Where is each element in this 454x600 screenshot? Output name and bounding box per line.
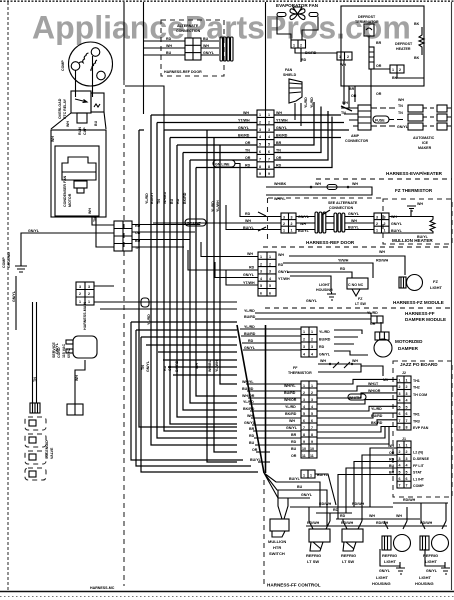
svg-text:7: 7 xyxy=(303,426,305,430)
svg-text:2: 2 xyxy=(79,292,81,296)
svg-text:CONNECTOR: CONNECTOR xyxy=(345,139,368,143)
svg-text:WH: WH xyxy=(88,208,92,214)
svg-text:7: 7 xyxy=(406,484,408,488)
svg-text:1: 1 xyxy=(392,68,394,72)
svg-text:4: 4 xyxy=(311,405,313,409)
svg-text:2: 2 xyxy=(311,391,313,395)
svg-text:ALTERNATE: ALTERNATE xyxy=(177,24,199,28)
svg-text:TN: TN xyxy=(398,111,403,115)
svg-text:HTR: HTR xyxy=(273,545,281,550)
svg-text:SWITCH: SWITCH xyxy=(269,551,285,556)
svg-text:2: 2 xyxy=(399,68,401,72)
svg-text:HOUSING: HOUSING xyxy=(415,581,434,586)
svg-text:1: 1 xyxy=(303,384,305,388)
svg-text:7: 7 xyxy=(311,426,313,430)
svg-text:3: 3 xyxy=(259,128,261,132)
svg-text:WH: WH xyxy=(342,101,348,105)
svg-text:JAZZ PO BOARD: JAZZ PO BOARD xyxy=(400,362,438,367)
svg-text:2: 2 xyxy=(347,55,349,59)
svg-text:YI/WH: YI/WH xyxy=(338,259,349,263)
svg-text:1: 1 xyxy=(88,300,90,304)
svg-text:FZ: FZ xyxy=(433,279,438,284)
svg-text:BU/YL: BU/YL xyxy=(243,226,255,230)
svg-text:4: 4 xyxy=(268,135,270,139)
svg-text:7: 7 xyxy=(259,157,261,161)
svg-text:9: 9 xyxy=(303,440,305,444)
svg-text:FF LIT: FF LIT xyxy=(413,464,425,468)
svg-text:STAT: STAT xyxy=(413,471,423,475)
svg-text:BU: BU xyxy=(166,51,172,55)
svg-text:2: 2 xyxy=(268,120,270,124)
svg-text:7: 7 xyxy=(399,419,401,423)
svg-text:WH: WH xyxy=(396,514,402,518)
svg-text:6: 6 xyxy=(311,419,313,423)
svg-text:OR: OR xyxy=(168,365,172,371)
svg-text:WH/BU: WH/BU xyxy=(208,359,212,372)
svg-text:OR: OR xyxy=(291,454,297,458)
svg-text:RD: RD xyxy=(176,198,180,204)
svg-text:MOTOR: MOTOR xyxy=(68,193,72,207)
svg-text:10: 10 xyxy=(310,447,314,451)
svg-text:L2 (N): L2 (N) xyxy=(413,451,424,455)
svg-text:WH/OR: WH/OR xyxy=(284,398,297,402)
svg-text:6: 6 xyxy=(406,412,408,416)
svg-text:YL/WH: YL/WH xyxy=(215,360,219,372)
svg-text:RD: RD xyxy=(248,339,254,343)
svg-text:TH COM: TH COM xyxy=(413,393,427,397)
svg-text:WH: WH xyxy=(51,136,55,142)
svg-text:2: 2 xyxy=(291,222,293,226)
svg-text:OR: OR xyxy=(389,451,395,455)
svg-text:3: 3 xyxy=(399,392,401,396)
svg-text:9: 9 xyxy=(311,440,313,444)
svg-text:HARNESS-MC: HARNESS-MC xyxy=(90,586,115,590)
svg-text:4: 4 xyxy=(406,399,408,403)
svg-text:FZ THERMISTOR: FZ THERMISTOR xyxy=(395,188,433,193)
svg-text:BK: BK xyxy=(414,22,420,26)
svg-text:1: 1 xyxy=(303,330,305,334)
svg-text:L1 IHT: L1 IHT xyxy=(413,477,425,481)
svg-text:1: 1 xyxy=(291,229,293,233)
svg-text:BU/GY: BU/GY xyxy=(150,192,154,204)
svg-text:WH: WH xyxy=(388,444,394,448)
svg-text:BU: BU xyxy=(203,37,209,41)
svg-text:LT SW: LT SW xyxy=(307,559,319,564)
svg-text:3: 3 xyxy=(399,457,401,461)
svg-text:BK/RD: BK/RD xyxy=(243,407,255,411)
svg-text:GN/YL: GN/YL xyxy=(28,229,40,233)
svg-text:EVP FAN: EVP FAN xyxy=(413,426,429,430)
svg-text:GN/YL: GN/YL xyxy=(426,569,438,573)
svg-text:1: 1 xyxy=(311,384,313,388)
svg-text:WH: WH xyxy=(278,253,284,257)
svg-text:YL/RD: YL/RD xyxy=(244,309,255,313)
svg-text:1: 1 xyxy=(303,474,305,478)
svg-text:WH: WH xyxy=(379,250,385,254)
svg-text:WH/YL: WH/YL xyxy=(284,384,296,388)
svg-text:J2: J2 xyxy=(402,371,406,375)
svg-text:5: 5 xyxy=(260,284,262,288)
svg-text:BU/RD: BU/RD xyxy=(242,387,254,391)
svg-text:PTC RELAY: PTC RELAY xyxy=(63,98,67,119)
svg-text:GROUND: GROUND xyxy=(7,252,11,268)
svg-text:RD: RD xyxy=(340,514,346,518)
svg-text:1: 1 xyxy=(399,379,401,383)
svg-text:5: 5 xyxy=(259,143,261,147)
svg-text:LIGHT: LIGHT xyxy=(425,559,438,564)
svg-text:REFRIG: REFRIG xyxy=(382,553,397,558)
svg-text:AppliancePartsPros.com: AppliancePartsPros.com xyxy=(32,10,411,46)
svg-text:3: 3 xyxy=(291,216,293,220)
svg-text:1: 1 xyxy=(311,330,313,334)
svg-text:BU: BU xyxy=(94,120,98,126)
svg-text:1: 1 xyxy=(268,113,270,117)
svg-text:BK/RD: BK/RD xyxy=(175,360,179,372)
svg-text:8: 8 xyxy=(259,165,261,169)
svg-text:3: 3 xyxy=(311,398,313,402)
svg-text:RD/WH: RD/WH xyxy=(403,498,416,502)
svg-text:BR: BR xyxy=(249,427,255,431)
svg-text:1: 1 xyxy=(384,229,386,233)
svg-text:WH/BK: WH/BK xyxy=(274,182,287,186)
svg-text:4: 4 xyxy=(303,405,305,409)
svg-text:WH/YL: WH/YL xyxy=(242,380,254,384)
svg-text:5: 5 xyxy=(311,412,313,416)
svg-text:2: 2 xyxy=(260,262,262,266)
svg-text:BR: BR xyxy=(291,433,297,437)
svg-text:HARNESS-FF: HARNESS-FF xyxy=(405,311,435,316)
svg-text:FAN: FAN xyxy=(285,68,293,72)
svg-text:BU: BU xyxy=(389,464,395,468)
svg-text:2: 2 xyxy=(384,222,386,226)
svg-text:BU/YL: BU/YL xyxy=(317,473,329,477)
svg-text:WH: WH xyxy=(352,359,358,363)
svg-text:4: 4 xyxy=(406,464,408,468)
svg-text:DAMPER: DAMPER xyxy=(398,346,419,351)
svg-text:8: 8 xyxy=(303,433,305,437)
svg-text:HARNESS-REF DOOR: HARNESS-REF DOOR xyxy=(306,240,355,245)
svg-text:3: 3 xyxy=(311,345,313,349)
svg-text:CONNECTION: CONNECTION xyxy=(176,29,201,33)
svg-text:1: 1 xyxy=(399,444,401,448)
svg-text:4: 4 xyxy=(399,399,401,403)
svg-text:DAMPER MODULE: DAMPER MODULE xyxy=(405,317,446,322)
svg-text:WH: WH xyxy=(289,419,295,423)
svg-text:DEFROST: DEFROST xyxy=(358,15,376,19)
svg-text:WH: WH xyxy=(245,219,251,223)
svg-text:HARNESS-FF CONTROL: HARNESS-FF CONTROL xyxy=(267,583,321,588)
svg-text:OR: OR xyxy=(376,64,382,68)
svg-text:TN: TN xyxy=(157,199,161,204)
svg-text:WH: WH xyxy=(247,252,253,256)
svg-text:5: 5 xyxy=(268,143,270,147)
svg-text:TH1: TH1 xyxy=(413,379,420,383)
svg-text:GN/YL: GN/YL xyxy=(146,360,150,372)
svg-text:YL/RD: YL/RD xyxy=(211,201,215,212)
svg-text:ICE: ICE xyxy=(422,141,429,145)
svg-text:BU: BU xyxy=(249,441,255,445)
svg-text:GN/YL: GN/YL xyxy=(348,212,360,216)
svg-text:BK/RD: BK/RD xyxy=(285,412,297,416)
svg-text:WH: WH xyxy=(203,44,209,48)
svg-text:GN/YL: GN/YL xyxy=(243,273,255,277)
svg-text:GN/YL: GN/YL xyxy=(286,426,298,430)
svg-text:YT/WH: YT/WH xyxy=(278,277,290,281)
svg-text:WH: WH xyxy=(75,375,79,381)
svg-text:MAKER: MAKER xyxy=(418,146,432,150)
svg-text:11: 11 xyxy=(310,454,314,458)
svg-text:RD: RD xyxy=(245,212,251,216)
svg-text:REFRIG: REFRIG xyxy=(306,553,321,558)
svg-text:WH: WH xyxy=(352,182,358,186)
svg-text:LIGHT: LIGHT xyxy=(384,559,397,564)
svg-text:1: 1 xyxy=(406,379,408,383)
svg-text:LIGHT: LIGHT xyxy=(419,575,432,580)
svg-text:1: 1 xyxy=(406,444,408,448)
svg-text:YL/RD: YL/RD xyxy=(244,325,255,329)
svg-text:BU/RD: BU/RD xyxy=(371,414,383,418)
svg-text:2: 2 xyxy=(303,338,305,342)
svg-text:HARNESS-EVAP/HEATER: HARNESS-EVAP/HEATER xyxy=(386,171,443,176)
svg-text:COMP: COMP xyxy=(61,60,65,71)
svg-text:BK/RD: BK/RD xyxy=(371,421,383,425)
svg-text:4: 4 xyxy=(269,277,271,281)
svg-text:GN/YL: GN/YL xyxy=(301,493,313,497)
svg-text:OR: OR xyxy=(370,322,376,326)
svg-text:RD: RD xyxy=(291,440,297,444)
svg-text:CONNECTION: CONNECTION xyxy=(329,206,354,210)
svg-text:D-SENSE: D-SENSE xyxy=(413,457,430,461)
svg-text:4: 4 xyxy=(399,464,401,468)
svg-text:RD/WH: RD/WH xyxy=(376,521,389,525)
svg-text:2: 2 xyxy=(269,262,271,266)
svg-text:OVERLOAD: OVERLOAD xyxy=(58,98,62,119)
svg-text:3: 3 xyxy=(376,216,378,220)
svg-text:10: 10 xyxy=(302,447,306,451)
svg-text:1: 1 xyxy=(79,300,81,304)
svg-text:2: 2 xyxy=(406,450,408,454)
svg-text:1: 1 xyxy=(260,255,262,259)
svg-text:RD/WH: RD/WH xyxy=(319,502,332,506)
svg-text:LIGHT: LIGHT xyxy=(319,283,331,287)
svg-text:BU: BU xyxy=(297,485,303,489)
svg-text:GN/YL: GN/YL xyxy=(55,342,59,354)
svg-text:WH/OR: WH/OR xyxy=(242,394,255,398)
svg-text:5: 5 xyxy=(399,405,401,409)
svg-text:OR: OR xyxy=(252,448,258,452)
svg-text:2: 2 xyxy=(259,120,261,124)
svg-text:GN/YL: GN/YL xyxy=(319,353,331,357)
svg-text:5: 5 xyxy=(406,405,408,409)
svg-text:HARNESS-FZ MODULE: HARNESS-FZ MODULE xyxy=(393,300,444,305)
svg-text:AMP: AMP xyxy=(351,134,360,138)
svg-text:RD: RD xyxy=(301,58,307,62)
svg-text:TR1: TR1 xyxy=(413,413,420,417)
svg-text:2: 2 xyxy=(399,450,401,454)
svg-text:3: 3 xyxy=(406,392,408,396)
svg-text:BU: BU xyxy=(291,447,297,451)
svg-text:BU/YL: BU/YL xyxy=(417,235,429,239)
svg-text:GN/YL: GN/YL xyxy=(12,290,16,302)
svg-text:HARNESS-MAIN: HARNESS-MAIN xyxy=(83,302,87,330)
svg-text:5: 5 xyxy=(269,284,271,288)
svg-text:SHIELD: SHIELD xyxy=(283,73,297,77)
svg-text:GN/YL: GN/YL xyxy=(397,125,409,129)
svg-text:TN: TN xyxy=(341,111,346,115)
svg-text:BK: BK xyxy=(414,56,420,60)
svg-text:3: 3 xyxy=(303,398,305,402)
svg-text:LIGHT: LIGHT xyxy=(430,285,443,290)
svg-text:1: 1 xyxy=(283,229,285,233)
svg-text:4: 4 xyxy=(260,277,262,281)
svg-text:GN LINE: GN LINE xyxy=(215,163,230,167)
svg-text:WH: WH xyxy=(398,98,404,102)
svg-text:DEFROST: DEFROST xyxy=(395,42,413,46)
svg-text:YT/WH: YT/WH xyxy=(243,281,255,285)
svg-text:115 VAC: 115 VAC xyxy=(62,343,66,358)
svg-text:8: 8 xyxy=(399,426,401,430)
svg-text:4: 4 xyxy=(303,353,305,357)
svg-text:3: 3 xyxy=(283,216,285,220)
svg-text:6: 6 xyxy=(260,292,262,296)
svg-text:YL/RD: YL/RD xyxy=(285,405,296,409)
svg-text:BU/YL: BU/YL xyxy=(348,226,360,230)
svg-text:TN: TN xyxy=(398,104,403,108)
svg-text:7: 7 xyxy=(268,157,270,161)
svg-text:WH: WH xyxy=(66,121,70,127)
svg-text:GN/YL: GN/YL xyxy=(203,51,215,55)
svg-text:OR: OR xyxy=(376,92,382,96)
svg-text:HOUSING: HOUSING xyxy=(372,581,391,586)
svg-text:BU/RD: BU/RD xyxy=(244,315,256,319)
svg-text:WH: WH xyxy=(369,514,375,518)
svg-text:WH: WH xyxy=(315,182,321,186)
svg-text:4: 4 xyxy=(259,135,261,139)
svg-text:3: 3 xyxy=(260,270,262,274)
svg-text:WH/OR: WH/OR xyxy=(368,389,381,393)
svg-text:GN/YL: GN/YL xyxy=(306,299,318,303)
svg-text:HARNESS-REF DOOR: HARNESS-REF DOOR xyxy=(164,70,202,74)
svg-text:TN: TN xyxy=(33,377,37,382)
svg-text:1: 1 xyxy=(269,255,271,259)
svg-text:WH/TN: WH/TN xyxy=(349,396,361,400)
svg-text:RD/WH: RD/WH xyxy=(376,259,389,263)
svg-text:1: 1 xyxy=(376,229,378,233)
svg-text:GN/YL: GN/YL xyxy=(391,222,403,226)
svg-text:TH2: TH2 xyxy=(413,386,420,390)
svg-text:2: 2 xyxy=(300,44,302,48)
svg-text:3: 3 xyxy=(79,285,81,289)
svg-text:1: 1 xyxy=(339,55,341,59)
svg-text:MULLION: MULLION xyxy=(268,539,286,544)
svg-text:BU/YL: BU/YL xyxy=(289,477,301,481)
svg-text:GN/YL: GN/YL xyxy=(244,421,256,425)
svg-text:7: 7 xyxy=(406,419,408,423)
svg-text:8: 8 xyxy=(406,426,408,430)
svg-text:MOTORIZED: MOTORIZED xyxy=(395,339,423,344)
svg-text:RD/WH: RD/WH xyxy=(352,502,365,506)
svg-text:BU/YL: BU/YL xyxy=(391,229,403,233)
svg-text:TERMINATOR: TERMINATOR xyxy=(355,20,379,24)
svg-text:8: 8 xyxy=(268,165,270,169)
svg-text:BR: BR xyxy=(389,471,395,475)
svg-text:BR: BR xyxy=(349,87,355,91)
svg-text:9: 9 xyxy=(268,172,270,176)
svg-text:6: 6 xyxy=(399,412,401,416)
svg-text:WH: WH xyxy=(166,44,172,48)
svg-text:6: 6 xyxy=(259,150,261,154)
svg-text:BU/RD: BU/RD xyxy=(319,338,331,342)
svg-text:RD: RD xyxy=(166,37,172,41)
svg-text:WH: WH xyxy=(195,363,199,369)
svg-text:M1: M1 xyxy=(383,378,388,382)
svg-text:WH: WH xyxy=(351,219,357,223)
svg-text:GN/YL: GN/YL xyxy=(244,346,256,350)
svg-text:7: 7 xyxy=(399,484,401,488)
svg-text:RD: RD xyxy=(389,458,395,462)
svg-text:COMP: COMP xyxy=(413,484,424,488)
svg-text:6: 6 xyxy=(399,477,401,481)
svg-text:RD: RD xyxy=(249,266,255,270)
svg-text:WH: WH xyxy=(340,63,346,67)
svg-text:HEATER: HEATER xyxy=(396,47,411,51)
svg-text:YL/RD: YL/RD xyxy=(145,193,149,204)
svg-text:SEE ALTERNATE: SEE ALTERNATE xyxy=(328,201,358,205)
svg-text:LIGHT: LIGHT xyxy=(376,575,389,580)
svg-text:5: 5 xyxy=(406,470,408,474)
svg-text:1: 1 xyxy=(259,113,261,117)
svg-text:11: 11 xyxy=(302,454,306,458)
svg-text:6: 6 xyxy=(406,477,408,481)
svg-text:RUN: RUN xyxy=(78,127,82,135)
svg-text:BU/RD: BU/RD xyxy=(284,391,296,395)
svg-text:YL/RD: YL/RD xyxy=(243,400,254,404)
svg-text:J1: J1 xyxy=(402,437,406,441)
svg-text:YL/RD: YL/RD xyxy=(304,97,308,108)
svg-text:RD: RD xyxy=(163,365,167,371)
svg-text:C NO NC: C NO NC xyxy=(348,283,364,287)
svg-text:SOLENOID: SOLENOID xyxy=(45,440,49,459)
svg-text:2: 2 xyxy=(303,391,305,395)
svg-text:YL/RD: YL/RD xyxy=(147,314,151,325)
svg-text:TR3: TR3 xyxy=(413,419,420,423)
svg-text:BK/RD: BK/RD xyxy=(183,192,187,204)
svg-text:5: 5 xyxy=(303,412,305,416)
svg-text:REFRIG: REFRIG xyxy=(341,553,356,558)
svg-text:WH: WH xyxy=(320,359,326,363)
svg-text:VALVE: VALVE xyxy=(50,447,54,459)
svg-text:RD: RD xyxy=(319,345,325,349)
svg-text:6: 6 xyxy=(269,292,271,296)
svg-text:9: 9 xyxy=(259,172,261,176)
svg-text:AUTOMATIC: AUTOMATIC xyxy=(413,136,435,140)
svg-text:CAP: CAP xyxy=(83,127,87,135)
svg-text:2: 2 xyxy=(376,222,378,226)
svg-text:3: 3 xyxy=(269,270,271,274)
svg-text:4: 4 xyxy=(311,353,313,357)
svg-text:BU/RD: BU/RD xyxy=(244,332,256,336)
svg-text:WH: WH xyxy=(417,202,423,206)
svg-text:WH/BU: WH/BU xyxy=(163,191,167,204)
svg-text:RD: RD xyxy=(340,267,346,271)
svg-text:BU: BU xyxy=(170,198,174,204)
svg-text:RD: RD xyxy=(333,508,339,512)
svg-text:YL/RD: YL/RD xyxy=(319,330,330,334)
svg-text:2: 2 xyxy=(406,385,408,389)
svg-text:2: 2 xyxy=(283,222,285,226)
svg-text:3: 3 xyxy=(384,216,386,220)
svg-text:3: 3 xyxy=(88,285,90,289)
